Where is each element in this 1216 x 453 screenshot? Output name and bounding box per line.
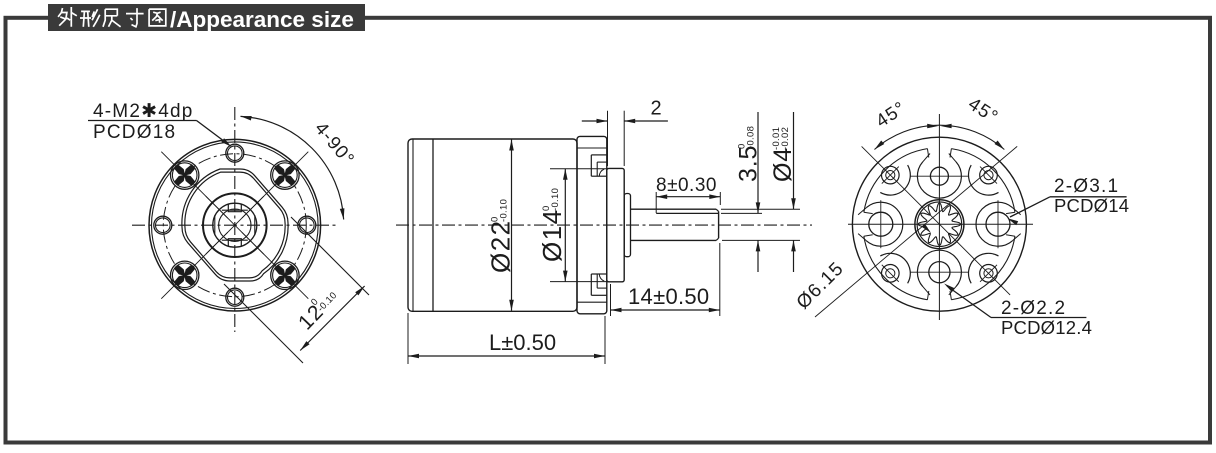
svg-text:2-Ø2.2: 2-Ø2.2 <box>1001 298 1066 319</box>
svg-text:Ø14: Ø14 <box>537 208 567 262</box>
svg-text:PCDØ14: PCDØ14 <box>1054 195 1129 216</box>
svg-text:2-Ø3.1: 2-Ø3.1 <box>1054 176 1119 197</box>
svg-text:/Appearance size: /Appearance size <box>170 7 354 32</box>
svg-text:-0.02: -0.02 <box>780 127 791 150</box>
svg-text:3.5: 3.5 <box>735 145 763 182</box>
svg-text:-0.10: -0.10 <box>498 199 509 222</box>
svg-text:-0.10: -0.10 <box>550 188 561 211</box>
svg-text:14±0.50: 14±0.50 <box>628 284 709 309</box>
svg-text:PCDØ12.4: PCDØ12.4 <box>1001 317 1092 338</box>
svg-text:PCDØ18: PCDØ18 <box>93 122 176 143</box>
svg-text:2: 2 <box>651 98 663 120</box>
svg-text:L±0.50: L±0.50 <box>489 330 556 355</box>
svg-text:8±0.30: 8±0.30 <box>656 175 717 196</box>
svg-text:Ø22: Ø22 <box>486 219 516 273</box>
svg-text:Ø4: Ø4 <box>769 147 797 182</box>
svg-text:-0.08: -0.08 <box>745 126 756 149</box>
svg-text:4-M2✱4dp: 4-M2✱4dp <box>93 101 194 122</box>
